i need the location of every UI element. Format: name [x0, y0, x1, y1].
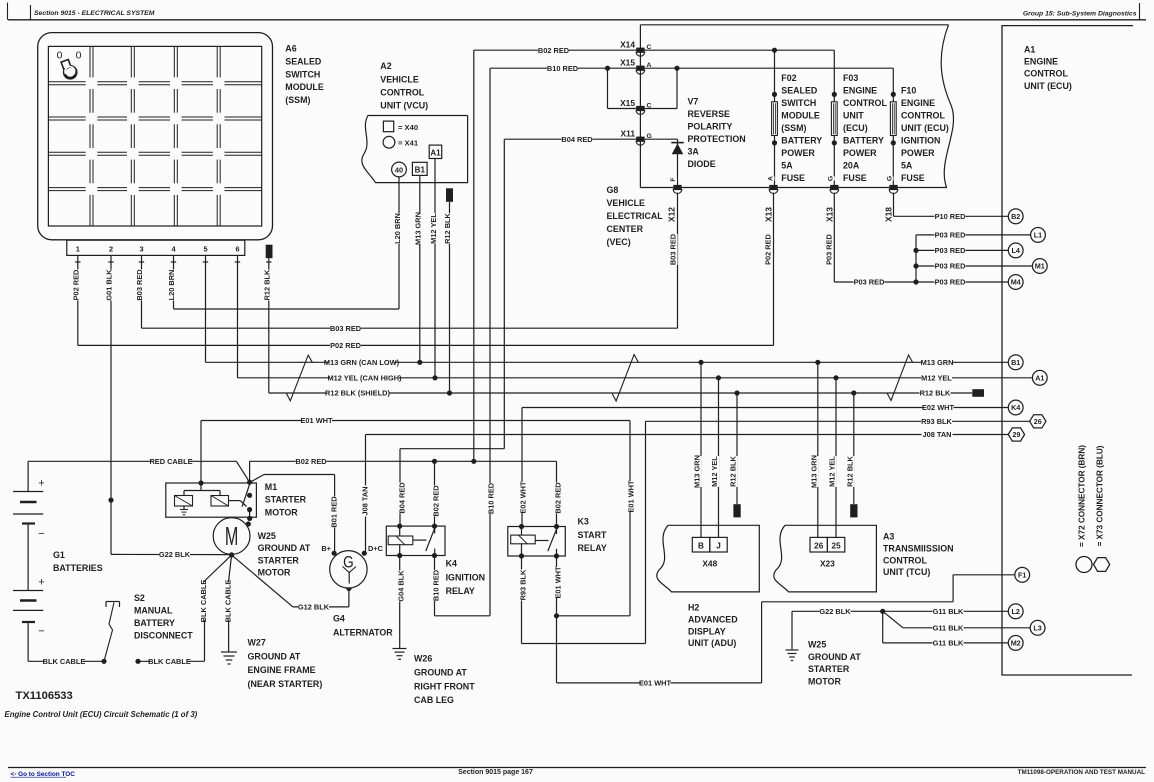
wire M12 YEL from VCU A1 — [434, 159, 436, 378]
svg-text:1: 1 — [76, 245, 80, 254]
svg-text:+: + — [38, 478, 44, 490]
svg-text:B1: B1 — [1011, 358, 1020, 367]
svg-text:MOTOR: MOTOR — [265, 507, 298, 517]
svg-text:SWITCH: SWITCH — [285, 69, 320, 79]
wire G04 BLK from K4 to ground — [399, 556, 401, 649]
relay K3 terminal dots — [519, 524, 524, 529]
svg-text:L4: L4 — [1012, 246, 1020, 255]
fuse F10 ECU ignition power 5A — [891, 92, 896, 97]
svg-text:IGNITION: IGNITION — [446, 572, 485, 582]
VCU pin 40 stub — [398, 177, 400, 183]
svg-text:5A: 5A — [901, 160, 913, 170]
wire P03 RED row to M4 — [834, 281, 1008, 283]
svg-text:R12 BLK: R12 BLK — [920, 389, 951, 398]
svg-text:Section 9015 - ELECTRICAL SYST: Section 9015 - ELECTRICAL SYSTEM — [34, 10, 155, 17]
connector X48 pin J box — [710, 537, 727, 552]
svg-text:E01 WHT: E01 WHT — [627, 480, 636, 513]
ECU pin L4 — [1008, 243, 1023, 258]
svg-text:F03: F03 — [843, 73, 858, 83]
wire P10 RED from X18 — [893, 193, 895, 217]
svg-text:= X72 CONNECTOR (BRN): = X72 CONNECTOR (BRN) — [1077, 445, 1086, 547]
svg-text:+: + — [38, 577, 44, 589]
svg-text:UNIT (ECU): UNIT (ECU) — [901, 123, 949, 133]
connector X14 pin C — [636, 48, 644, 53]
ECU pin L2 — [1008, 604, 1023, 619]
shield terminator at SSM connector — [266, 245, 273, 259]
svg-text:UNIT: UNIT — [843, 110, 864, 120]
SSM pin stub wires with ticks — [77, 255, 79, 267]
legend X72 connector text — [1076, 455, 1086, 538]
svg-text:B+: B+ — [321, 544, 331, 553]
svg-text:E01 WHT: E01 WHT — [639, 679, 672, 688]
svg-text:G01 BLK: G01 BLK — [104, 269, 113, 301]
svg-text:D+C: D+C — [368, 544, 384, 553]
svg-text:VEHICLE: VEHICLE — [607, 198, 646, 208]
shield terminator below VCU — [446, 188, 453, 202]
wire B02 RED to K3 contact — [556, 461, 558, 526]
wire E02 WHT row — [522, 407, 1008, 409]
connector X15 pin A — [636, 66, 644, 71]
svg-text:A1: A1 — [1035, 373, 1044, 382]
svg-text:K4: K4 — [1011, 403, 1020, 412]
svg-text:R12 BLK (SHIELD): R12 BLK (SHIELD) — [325, 389, 390, 398]
wire P03 RED riser below X13 G — [833, 193, 835, 283]
ground W25 at starter motor — [786, 649, 799, 651]
starter solenoid coil2 to contact — [229, 500, 241, 502]
svg-text:B1: B1 — [415, 165, 426, 174]
svg-text:3A: 3A — [688, 147, 700, 157]
battery G1 inter-cell link — [27, 524, 29, 591]
ECU pin M1 — [1032, 259, 1047, 274]
svg-text:ALTERNATOR: ALTERNATOR — [333, 628, 393, 638]
svg-text:A6: A6 — [285, 44, 296, 54]
SSM key icon — [64, 66, 76, 78]
ground W27 engine frame — [221, 651, 237, 653]
svg-text:B03 RED: B03 RED — [330, 324, 362, 333]
svg-text:B04 RED: B04 RED — [397, 482, 406, 514]
svg-text:G1: G1 — [53, 550, 65, 560]
wire M13 GRN from VCU B1 — [419, 175, 421, 362]
wire J08 TAN row — [366, 434, 1009, 436]
relay K3 coil — [511, 535, 536, 544]
junction G11 BLK fan-out — [880, 609, 885, 614]
relay K3 box — [508, 527, 566, 557]
svg-text:STARTER: STARTER — [265, 495, 307, 505]
ECU pin B2 — [1008, 209, 1023, 224]
svg-text:L3: L3 — [1033, 623, 1041, 632]
wire E01 WHT spur to riser — [557, 615, 631, 617]
svg-text:REVERSE: REVERSE — [688, 109, 730, 119]
svg-text:P02 RED: P02 RED — [763, 233, 772, 264]
wire R12 BLK from VCU shield — [449, 202, 451, 393]
svg-text:M13 GRN (CAN LOW): M13 GRN (CAN LOW) — [324, 358, 400, 367]
wire M13 GRN right label — [922, 358, 953, 368]
svg-text:G: G — [828, 176, 835, 181]
svg-text:(SSM): (SSM) — [285, 95, 310, 105]
svg-text:B02 RED: B02 RED — [553, 482, 562, 514]
svg-text:25: 25 — [832, 542, 842, 551]
wire J08 TAN drop to alternator — [365, 435, 367, 552]
svg-text:= X40: = X40 — [398, 123, 418, 132]
connector X15 pin C — [636, 106, 644, 111]
wire P02 RED from SSM pin1 — [77, 267, 79, 345]
svg-text:X48: X48 — [702, 559, 717, 569]
legend circle = X41 — [383, 136, 395, 148]
connector X48 pin B box — [692, 537, 710, 552]
svg-text:M12 YEL: M12 YEL — [710, 456, 719, 487]
svg-text:R12 BLK: R12 BLK — [728, 455, 737, 486]
svg-text:MANUAL: MANUAL — [134, 606, 173, 616]
ECU pin 26 hex — [1030, 415, 1046, 428]
wire R12 BLK shield at TCU — [853, 393, 855, 504]
svg-text:UNIT (ECU): UNIT (ECU) — [1024, 81, 1072, 91]
svg-text:M1: M1 — [1035, 262, 1045, 271]
wire M13 GRN (CAN LOW) bus — [206, 361, 1009, 363]
ECU pin 29 hex — [1008, 428, 1024, 441]
junction B02 to F02 — [772, 48, 777, 53]
svg-text:H2: H2 — [688, 602, 699, 612]
wire E01 WHT bottom run to ECU F1 — [557, 682, 762, 684]
relay K4 coil leads — [399, 526, 401, 536]
starter motor M circle — [213, 518, 250, 555]
svg-text:ENGINE FRAME: ENGINE FRAME — [248, 665, 316, 675]
svg-text:40: 40 — [395, 165, 403, 174]
svg-text:RED CABLE: RED CABLE — [149, 457, 192, 466]
svg-text:= X73 CONNECTOR (BLU): = X73 CONNECTOR (BLU) — [1095, 445, 1104, 546]
relay K4 coil — [388, 536, 413, 545]
svg-text:B02 RED: B02 RED — [538, 46, 570, 55]
svg-text:CAB LEG: CAB LEG — [414, 695, 454, 705]
battery G1 negative lead — [27, 622, 29, 661]
svg-text:A1: A1 — [1024, 44, 1035, 54]
svg-text:P10 RED: P10 RED — [935, 212, 966, 221]
twisted pair marker left — [286, 355, 312, 401]
svg-text:5A: 5A — [781, 160, 793, 170]
svg-text:ADVANCED: ADVANCED — [688, 614, 738, 624]
wire E01 WHT right riser — [629, 421, 631, 616]
svg-text:CONTROL: CONTROL — [380, 87, 424, 97]
relay K3 coil leads — [521, 527, 523, 536]
svg-text:20A: 20A — [843, 160, 860, 170]
svg-text:CONTROL: CONTROL — [1024, 69, 1068, 79]
svg-text:−: − — [38, 626, 44, 638]
svg-text:P03 RED: P03 RED — [935, 231, 966, 240]
svg-text:Section 9015 page 167: Section 9015 page 167 — [458, 769, 533, 776]
wire B02 RED row from starter — [249, 461, 251, 482]
svg-text:A3: A3 — [883, 531, 894, 541]
fuse F03 ECU battery power 20A — [832, 92, 837, 97]
svg-text:G4: G4 — [333, 614, 345, 624]
P03 RED feeder riser — [915, 235, 917, 282]
wire BLK CABLE starter to frame ground — [229, 555, 232, 581]
svg-text:F1: F1 — [1018, 570, 1026, 579]
wire R12 BLK shield at ADU — [736, 393, 738, 504]
svg-text:0: 0 — [76, 49, 82, 61]
wire BLK CABLE starter to disconnect — [205, 555, 232, 581]
fuse F10 top feed — [892, 68, 894, 94]
svg-text:C: C — [647, 44, 652, 51]
svg-text:M13 GRN: M13 GRN — [809, 455, 818, 488]
starter solenoid coil1 ground — [183, 506, 185, 509]
svg-text:X23: X23 — [820, 559, 835, 569]
wire B02 RED to K4 contact — [434, 461, 436, 526]
svg-text:SEALED: SEALED — [285, 56, 322, 66]
svg-text:B02 RED: B02 RED — [431, 485, 440, 517]
svg-text:P02 RED: P02 RED — [71, 269, 80, 300]
svg-text:W27: W27 — [248, 638, 266, 648]
svg-text:C: C — [647, 102, 652, 109]
svg-text:B2: B2 — [1011, 212, 1020, 221]
ground W26 right front cab leg — [393, 648, 407, 650]
switch S2 manual battery disconnect blade — [104, 603, 114, 662]
svg-text:A2: A2 — [380, 61, 391, 71]
wire R93 BLK riser — [645, 421, 647, 643]
svg-text:M1: M1 — [265, 482, 277, 492]
svg-text:G22 BLK: G22 BLK — [819, 607, 851, 616]
svg-text:L1: L1 — [1034, 231, 1042, 240]
svg-text:Group 15: Sub-System Diagnosti: Group 15: Sub-System Diagnostics — [1023, 11, 1137, 18]
svg-text:STARTER: STARTER — [808, 664, 850, 674]
svg-text:RELAY: RELAY — [446, 586, 475, 596]
X15 pin C loop — [607, 68, 609, 108]
battery G1 cell plates upper — [13, 491, 43, 493]
wire P03 RED row to L1 — [916, 234, 1031, 236]
svg-text:RELAY: RELAY — [578, 543, 607, 553]
svg-text:FUSE: FUSE — [781, 173, 805, 183]
svg-text:S2: S2 — [134, 593, 145, 603]
connector X23 pin 26 box — [810, 537, 827, 552]
svg-text:M: M — [225, 521, 238, 551]
svg-text:P03 RED: P03 RED — [935, 278, 966, 287]
module H2 ADU box with torn edge — [657, 525, 760, 592]
module A6 SSM outline — [38, 33, 273, 240]
svg-text:29: 29 — [1012, 430, 1020, 439]
svg-text:POLARITY: POLARITY — [688, 122, 733, 132]
svg-text:CONTROL: CONTROL — [843, 98, 887, 108]
connector X11 pin G — [636, 137, 644, 142]
svg-text:W26: W26 — [414, 654, 432, 664]
svg-text:FUSE: FUSE — [901, 173, 925, 183]
junction dots VCU wires on CAN bus — [417, 360, 422, 365]
svg-text:BLK CABLE: BLK CABLE — [223, 580, 232, 623]
svg-text:A1: A1 — [430, 148, 441, 157]
svg-text:BATTERY: BATTERY — [781, 135, 822, 145]
wire G12 BLK starter to alternator — [232, 555, 293, 607]
svg-text:0: 0 — [57, 49, 63, 61]
svg-text:2: 2 — [109, 245, 113, 254]
svg-text:BATTERY: BATTERY — [843, 135, 884, 145]
svg-text:M13 GRN: M13 GRN — [414, 212, 423, 245]
svg-text:TX1106533: TX1106533 — [16, 690, 73, 702]
svg-text:(ECU): (ECU) — [843, 123, 868, 133]
svg-text:SWITCH: SWITCH — [781, 98, 816, 108]
svg-text:26: 26 — [1034, 417, 1042, 426]
starter solenoid contact blade and studs — [242, 484, 250, 507]
svg-text:6: 6 — [235, 245, 239, 254]
svg-text:L2: L2 — [1012, 607, 1020, 616]
svg-text:X11: X11 — [621, 129, 636, 139]
ECU pin M2 — [1008, 636, 1023, 651]
svg-text:GROUND AT: GROUND AT — [808, 652, 861, 662]
wire BLK CABLE to starter ground — [135, 659, 140, 664]
alternator fork symbol — [343, 567, 357, 573]
wire B03 RED from SSM pin3 — [141, 267, 143, 328]
svg-text:L20 BRN: L20 BRN — [167, 270, 176, 301]
svg-text:J08 TAN: J08 TAN — [922, 430, 951, 439]
wire R93 BLK from K3 coil — [521, 556, 523, 644]
svg-text:CONTROL: CONTROL — [883, 555, 927, 565]
diode V7 reverse polarity protection — [677, 139, 679, 187]
twisted pair marker right — [887, 355, 913, 401]
connector X13 pin G on bus — [830, 185, 838, 190]
wire P03 RED row to L4 — [916, 249, 1008, 251]
wire E02 WHT drop to K3 — [521, 408, 523, 527]
svg-text:ENGINE: ENGINE — [1024, 56, 1058, 66]
svg-text:26: 26 — [814, 542, 824, 551]
svg-text:F02: F02 — [781, 73, 796, 83]
svg-text:GROUND AT: GROUND AT — [248, 651, 301, 661]
module A2 VCU box with torn edge — [362, 116, 468, 183]
svg-text:M13 GRN: M13 GRN — [692, 455, 701, 488]
svg-text:R12 BLK: R12 BLK — [262, 269, 271, 300]
svg-text:R93 BLK: R93 BLK — [921, 417, 952, 426]
module A1 ECU outline — [1002, 26, 1133, 675]
legend X73 connector text — [1094, 455, 1104, 538]
svg-text:FUSE: FUSE — [843, 173, 867, 183]
svg-text:B10 RED: B10 RED — [547, 64, 579, 73]
svg-text:G8: G8 — [607, 185, 619, 195]
svg-text:VEHICLE: VEHICLE — [380, 74, 419, 84]
wire B10 RED row — [490, 67, 893, 69]
wire G11 BLK to M2 — [882, 611, 884, 643]
wire R93 BLK row — [646, 420, 1031, 422]
svg-text:M12 YEL: M12 YEL — [921, 373, 952, 382]
VCU pin A1 box — [429, 145, 442, 158]
svg-text:UNIT (TCU): UNIT (TCU) — [883, 567, 930, 577]
svg-text:B10 RED: B10 RED — [432, 569, 441, 601]
svg-text:E01 WHT: E01 WHT — [300, 416, 333, 425]
wire from SSM pin5 to CAN low bus — [205, 267, 207, 362]
connector X18 pin G on bus — [889, 185, 897, 190]
starter motor ground node — [229, 552, 234, 557]
svg-text:= X41: = X41 — [398, 139, 419, 148]
svg-text:DISPLAY: DISPLAY — [688, 626, 726, 636]
svg-text:UNIT (ADU): UNIT (ADU) — [688, 638, 736, 648]
VEC bottom bus — [640, 187, 947, 189]
ECU pin A1 — [1032, 370, 1047, 385]
svg-text:L20 BRN: L20 BRN — [393, 213, 402, 244]
svg-text:M12 YEL: M12 YEL — [429, 213, 438, 244]
svg-text:B03 RED: B03 RED — [135, 269, 144, 301]
legend hexagon X73 — [1094, 558, 1110, 572]
wire BLK CABLE from battery — [28, 660, 104, 662]
wire B02 RED left drop — [473, 50, 475, 461]
svg-text:Engine Control Unit (ECU) Circ: Engine Control Unit (ECU) Circuit Schema… — [5, 710, 198, 719]
svg-text:M4: M4 — [1011, 278, 1021, 287]
svg-text:M13 GRN: M13 GRN — [921, 358, 954, 367]
svg-text:F10: F10 — [901, 85, 916, 95]
wire G11 BLK to L2 — [933, 607, 964, 617]
svg-text:<- Go to Section TOC: <- Go to Section TOC — [11, 771, 76, 778]
connector X1 strip pins 1-6 — [67, 240, 245, 255]
wire B10 RED left drop — [489, 68, 491, 616]
svg-text:G11 BLK: G11 BLK — [933, 607, 964, 616]
wire M12 YEL to ADU — [718, 378, 720, 538]
relay K4 terminal dots — [397, 524, 402, 529]
svg-text:MODULE: MODULE — [781, 110, 820, 120]
svg-text:3: 3 — [139, 245, 143, 254]
svg-text:X13: X13 — [824, 207, 834, 222]
wire L20 BRN from SSM pin4 to VCU pin 40 — [173, 267, 175, 309]
svg-text:BLK CABLE: BLK CABLE — [148, 657, 191, 666]
svg-text:B01 RED: B01 RED — [330, 496, 339, 528]
svg-text:BLK CABLE: BLK CABLE — [43, 657, 86, 666]
relay K4 box — [386, 526, 445, 555]
fuse F02 top feed — [774, 50, 776, 94]
svg-text:B10 RED: B10 RED — [487, 482, 496, 514]
svg-text:(SSM): (SSM) — [781, 123, 806, 133]
svg-text:B02 RED: B02 RED — [295, 457, 327, 466]
svg-text:ENGINE: ENGINE — [843, 85, 877, 95]
svg-text:A: A — [767, 176, 774, 181]
shield terminator at ECU end of R12 BLK — [972, 389, 984, 397]
starter solenoid internal feed — [198, 480, 203, 485]
svg-text:IGNITION: IGNITION — [901, 135, 940, 145]
svg-text:E02 WHT: E02 WHT — [922, 403, 955, 412]
fuse F02 SSM battery power 5A — [772, 92, 777, 97]
VEC torn right edge — [941, 25, 953, 188]
alternator terminals — [332, 551, 337, 556]
wire M13 GRN to ADU — [700, 362, 702, 537]
svg-text:E02 WHT: E02 WHT — [519, 481, 528, 514]
page footer rule — [8, 767, 1146, 769]
wire M12 YEL right label — [921, 373, 952, 383]
VEC top boundary wire — [640, 24, 948, 26]
svg-text:CENTER: CENTER — [607, 224, 644, 234]
svg-text:BLK CABLE: BLK CABLE — [199, 580, 208, 623]
svg-text:F: F — [670, 177, 677, 181]
svg-text:G: G — [647, 133, 652, 140]
svg-text:M2: M2 — [1011, 639, 1021, 648]
svg-text:G11 BLK: G11 BLK — [933, 623, 964, 632]
wire M12 YEL (CAN HIGH) bus — [238, 377, 1033, 379]
svg-text:X15: X15 — [620, 58, 635, 68]
svg-text:P03 RED: P03 RED — [824, 233, 833, 264]
svg-text:DISCONNECT: DISCONNECT — [134, 631, 193, 641]
relay K4 contact — [434, 526, 436, 533]
svg-text:X12: X12 — [667, 207, 677, 222]
svg-text:5: 5 — [203, 245, 207, 254]
svg-text:P03 RED: P03 RED — [935, 246, 966, 255]
svg-text:G: G — [886, 176, 893, 181]
svg-text:K4: K4 — [446, 559, 457, 569]
junction dots on B02 RED row — [432, 459, 437, 464]
legend circle X72 — [1076, 557, 1092, 573]
svg-text:(VEC): (VEC) — [607, 237, 631, 247]
wire P02 RED riser below X13 — [773, 193, 775, 346]
svg-text:POWER: POWER — [781, 148, 815, 158]
wire B04 RED to K4 coil — [400, 448, 504, 450]
VCU pin 40 circle — [392, 162, 407, 177]
wire B01 RED starter to alternator — [250, 475, 264, 483]
svg-text:MOTOR: MOTOR — [258, 568, 291, 578]
wire M13 GRN to TCU — [817, 362, 819, 537]
starter solenoid coil 1 — [175, 496, 193, 507]
wire R12 BLK right label — [920, 388, 951, 398]
svg-text:−: − — [38, 528, 44, 540]
svg-text:POWER: POWER — [901, 148, 935, 158]
svg-text:RIGHT FRONT: RIGHT FRONT — [414, 681, 475, 691]
